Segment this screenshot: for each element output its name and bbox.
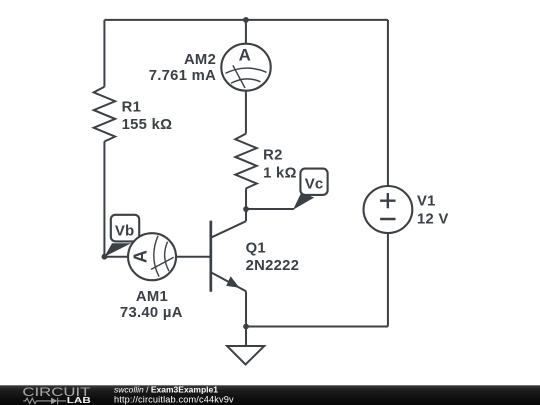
node: junction on top rail xyxy=(243,17,249,23)
resistor R1 xyxy=(94,87,115,142)
wire: R2 down to Vc node xyxy=(245,188,247,209)
flag Vb pointer wedge xyxy=(104,243,131,257)
svg-text:7.761 mA: 7.761 mA xyxy=(149,68,216,84)
svg-text:1 kΩ: 1 kΩ xyxy=(263,166,297,182)
flag Vb box xyxy=(111,215,139,242)
wire: AM2 down to R2 xyxy=(245,91,247,134)
wire: R1 down to base node xyxy=(103,141,105,256)
wire top rail xyxy=(104,19,388,21)
wire: top rail down to AM2 xyxy=(245,20,247,43)
wire: base node to AM1 xyxy=(104,256,128,258)
ammeter AM2 xyxy=(221,44,270,91)
svg-text:R2: R2 xyxy=(263,147,283,163)
transistor Q1 xyxy=(211,221,246,292)
wire bottom rail xyxy=(246,326,388,328)
logo resistor-diode glyph xyxy=(23,398,66,405)
wire: Vc node to flag pointer xyxy=(246,208,294,210)
wire: Q1 emitter down to bottom rail xyxy=(245,291,247,326)
wire: AM1 to Q1 base xyxy=(177,256,211,258)
wire: Q1 collector up to Vc node xyxy=(245,209,247,221)
svg-text:2N2222: 2N2222 xyxy=(246,258,300,274)
footer bar xyxy=(0,385,540,405)
svg-text:Q1: Q1 xyxy=(246,240,266,256)
flag Vc pointer wedge xyxy=(293,193,314,210)
node: base junction (Vb) xyxy=(102,254,108,260)
wire: top rail down to V1 xyxy=(387,20,389,186)
voltage source V1 xyxy=(364,186,413,233)
svg-text:swcollin / Exam3Example1: swcollin / Exam3Example1 xyxy=(114,385,218,395)
svg-text:A: A xyxy=(131,250,151,263)
svg-text:AM2: AM2 xyxy=(184,52,216,68)
svg-text:12 V: 12 V xyxy=(417,212,449,228)
ground xyxy=(227,346,264,365)
ammeter AM1 xyxy=(128,233,176,280)
wire: bottom node to ground xyxy=(245,327,247,347)
svg-text:http://circuitlab.com/c44kv9v: http://circuitlab.com/c44kv9v xyxy=(114,394,234,404)
svg-text:V1: V1 xyxy=(417,193,436,209)
node: bottom junction xyxy=(243,324,249,330)
svg-text:Vc: Vc xyxy=(305,176,324,193)
svg-text:R1: R1 xyxy=(122,100,142,116)
resistor R2 xyxy=(235,134,256,189)
svg-text:73.40 µA: 73.40 µA xyxy=(120,305,183,321)
svg-text:AM1: AM1 xyxy=(136,289,168,305)
wire left branch: top rail down to R1 xyxy=(103,20,105,87)
node: Vc junction xyxy=(243,206,249,212)
svg-text:LAB: LAB xyxy=(67,395,91,405)
svg-text:Vb: Vb xyxy=(115,223,135,240)
wire: V1 down to bottom rail xyxy=(387,233,389,326)
svg-text:155 kΩ: 155 kΩ xyxy=(122,117,173,133)
flag Vc box xyxy=(300,169,327,195)
svg-text:A: A xyxy=(239,46,251,65)
